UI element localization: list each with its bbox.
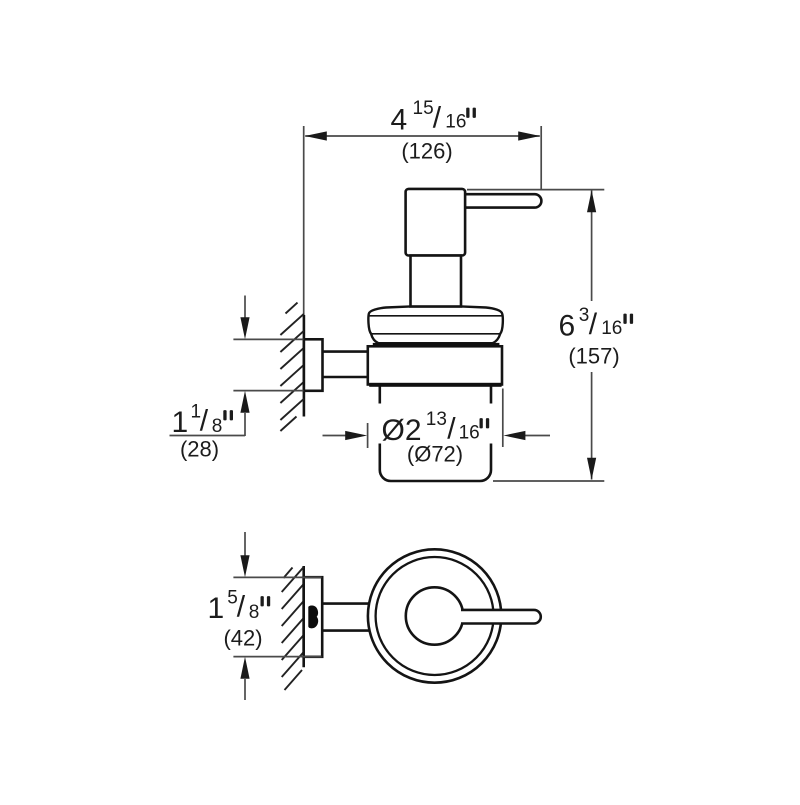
white mask behind diameter label [373,404,497,444]
dim label diam 2 13/16" [382,409,490,447]
svg-text:(157): (157) [568,344,619,369]
wall plate (top view) [304,577,323,657]
dim 1 1/8 : leader line [170,435,246,437]
dim 1 5/8 : extension line bottom [233,656,321,658]
svg-text:(42): (42) [223,626,262,651]
svg-text:/: / [433,102,442,135]
dim 1 1/8 : lower arrowhead [240,391,249,413]
holder ring (side view) [368,346,502,384]
svg-text:3: 3 [579,305,590,326]
dim label 1 1/8" [172,402,234,440]
dim diam : right extension line [502,389,504,448]
pump neck (side view) [411,256,462,307]
dark seam between shoulder and ring [373,343,500,347]
dim 1 1/8 : extension line bottom [233,390,303,392]
wall surface line (side view) [303,315,306,417]
dim 1 1/8 : lower arrow line [244,413,246,436]
spout (top view) [461,610,541,624]
svg-text:13: 13 [426,409,447,430]
dim diam : left arrow tail [323,435,353,437]
pump head (side view) [406,189,466,256]
svg-text:8: 8 [249,602,260,623]
pump spout (side view) [462,194,541,207]
support arm top line (top view) [322,602,369,605]
svg-text:/: / [200,405,209,438]
dim 6 3/16 : dimension line [591,191,593,480]
pump circle (top view) [406,587,463,644]
wall hatching (top view) [282,567,304,690]
dim 1 5/8 : lower arrowhead [240,657,249,679]
dim 1 1/8 : upper arrowhead [240,317,249,339]
dim label 1 5/8" [208,588,271,626]
dim 1 5/8in (42) : extension line top [233,576,321,578]
svg-text:8: 8 [212,416,223,437]
dim diam 2 13/16in (72) : left extension line [367,423,369,448]
svg-text:16: 16 [459,423,480,444]
inner rim circle (top view) [376,557,494,675]
screw slot (top view) [308,605,318,628]
outer circle of glass (top view) [368,549,501,682]
wall surface line (top view) [302,566,305,667]
shoulder waist line [371,333,500,335]
svg-text:(28): (28) [180,437,219,462]
wall plate (side view) [304,339,323,391]
svg-text:1: 1 [172,406,189,439]
top dimension : right extension line [540,126,542,190]
svg-text:/: / [237,591,246,624]
svg-text:(Ø72): (Ø72) [407,442,463,467]
shoulder inner line [369,315,501,317]
bottle shoulder dome (side view) [368,306,502,343]
dim 6 3/16 : extension line bottom [493,480,604,482]
svg-text:(126): (126) [401,139,452,164]
top dimension label 4 15/16" [391,98,476,137]
svg-text:16: 16 [445,112,466,133]
white mask behind 6 3/16 labels [553,301,639,372]
svg-text:1: 1 [208,592,225,625]
dim 1 5/8 : upper arrowhead [240,555,249,577]
dim 1 5/8 : lower arrow line [244,679,246,700]
top dimension : dimension line [305,135,540,137]
svg-text:4: 4 [391,104,408,137]
glass tumbler (side view) [380,387,491,482]
svg-text:16: 16 [601,318,622,339]
dark band at ring bottom [369,383,501,387]
dim diam : right arrowhead [503,431,525,440]
top dimension : left arrowhead [305,131,327,140]
dim 6 3/16 : bottom arrowhead [587,458,596,480]
dim diam : left arrowhead [345,431,367,440]
top dimension 4 15/16in (126) : left extension line [303,126,305,315]
support arm top line (side view) [323,350,368,353]
support arm bottom line (side view) [323,376,368,379]
svg-text:15: 15 [413,98,434,119]
dim 1 5/8 : upper arrow line [244,532,246,556]
dim 1 1/8in (28) : extension line top [233,338,303,340]
top dimension : right arrowhead [518,131,540,140]
dim diam : right arrow tail [518,435,550,437]
svg-text:6: 6 [559,310,576,343]
dim 1 1/8 : upper arrow line [244,296,246,318]
wall hatching (side view) [280,303,304,431]
dim label 6 3/16" [559,305,634,343]
dim 6 3/16in (157) : extension line top [467,189,604,191]
dim 6 3/16 : top arrowhead [587,190,596,212]
svg-text:/: / [589,308,598,341]
support arm bottom line (top view) [322,629,369,632]
